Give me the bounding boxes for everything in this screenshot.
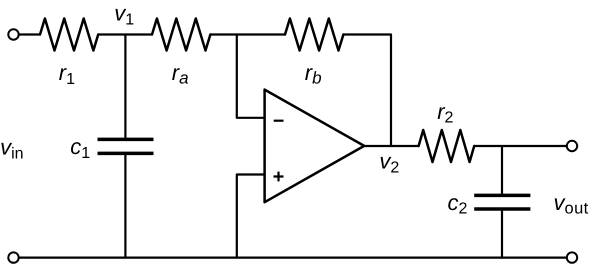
input terminal (top left) [8, 29, 18, 39]
ground rail wire [19, 257, 567, 259]
wire output node down to c2 [501, 146, 503, 195]
wire r2 to output terminal (through c2 junction) [474, 145, 566, 147]
capacitor c1 [98, 139, 154, 153]
op-amp minus sign [274, 120, 284, 122]
wire ra to rb (through inverting-input junction) [210, 33, 285, 35]
wire r1 to ra (through node v1) [98, 33, 152, 35]
wire op-amp non-inverting input to ground rail [237, 175, 265, 258]
ground terminal (bottom left) [8, 252, 18, 262]
resistor R2 [419, 130, 475, 162]
wire c2 to ground rail [501, 209, 503, 258]
resistor r1 [40, 19, 98, 51]
wire c1 to ground rail [124, 153, 126, 257]
resistor ra [152, 19, 210, 51]
op-amp plus sign [274, 172, 284, 182]
wire to op-amp inverting input [237, 35, 265, 118]
op-amp U1 [265, 90, 365, 203]
wire input to r1 [19, 33, 40, 35]
wire node v1 down to c1 [124, 35, 126, 140]
capacitor c2 [474, 195, 530, 209]
wire rb to output node (feedback corner) [343, 35, 391, 147]
resistor rb [285, 19, 343, 51]
ground terminal (bottom right) [567, 252, 577, 262]
wire op-amp output to r2 (node v2) [364, 145, 418, 147]
output terminal (top right) [567, 141, 577, 151]
